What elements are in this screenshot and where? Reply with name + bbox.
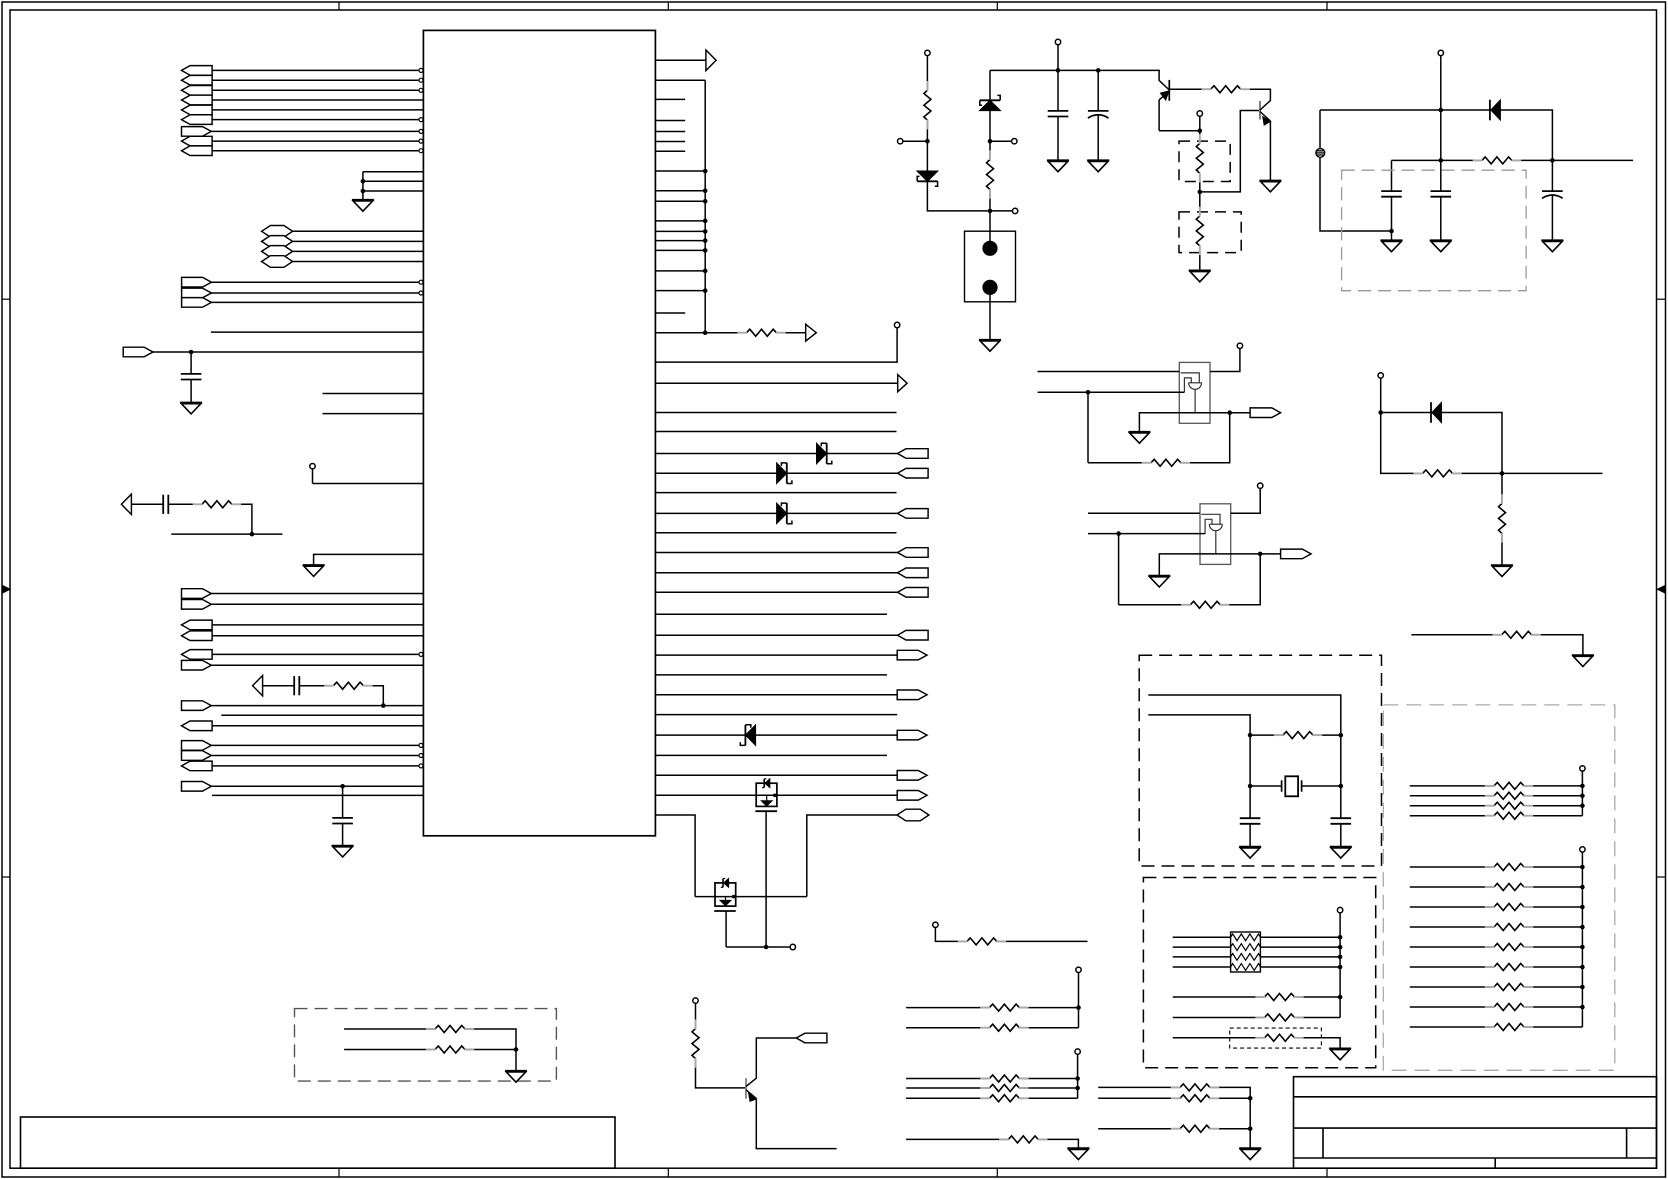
net flag row352: [123, 347, 153, 357]
resistor R41: [989, 1024, 1019, 1031]
pin stub row313: [655, 312, 685, 314]
wire R45 left: [906, 1138, 1008, 1140]
terminal U3 pullup: [1258, 483, 1263, 488]
wire R18 right: [1295, 1038, 1341, 1049]
net flag row473: [898, 468, 929, 478]
wire row745: [211, 744, 419, 746]
junction bus row240: [703, 238, 708, 243]
net flag row726: [182, 721, 213, 731]
wire capacitor C4 stem top: [342, 786, 344, 818]
wire RN1 row2 left: [1173, 946, 1231, 948]
wire capacitor C1 stem bottom: [190, 380, 192, 403]
wire row160 corner drop: [1391, 160, 1393, 191]
net flag hex row2: [262, 236, 293, 248]
wire left group1 row6: [212, 119, 419, 121]
pin stub row141: [655, 141, 685, 143]
connector J1 pin2: [982, 280, 997, 295]
wire R48 left: [1098, 1128, 1180, 1130]
junction R47: [1248, 1096, 1253, 1101]
wire bus row220: [655, 220, 705, 222]
wire row453: [655, 453, 897, 455]
border zone tick top x=1327: [1326, 2, 1328, 10]
wire R47 right: [1210, 1097, 1250, 1099]
chassis symbol: [1319, 147, 1321, 156]
MOSFET Q2 plate bar: [714, 910, 736, 912]
junction P3 node: [1378, 410, 1383, 415]
wire array2 row5 right: [1524, 946, 1582, 948]
arrow left row686: [253, 676, 263, 696]
border zone tick bottom x=339: [338, 1168, 340, 1177]
wire left group1 row3: [212, 89, 419, 91]
border zone tick left y=877: [2, 876, 10, 878]
junction array2 row1: [1580, 865, 1585, 870]
wire bus row190: [655, 190, 705, 192]
ground Q4: [1259, 180, 1281, 182]
net flag row654: [182, 650, 213, 660]
wire array2 row2 right: [1524, 886, 1582, 888]
wire left group1 row7: [211, 130, 419, 132]
net flag Q5 collector: [796, 1033, 827, 1043]
wire row572: [655, 572, 897, 574]
net flag left group1 row4: [182, 95, 213, 105]
wire P4 drop: [1339, 913, 1341, 1018]
terminal P7: [933, 922, 938, 927]
wire bus row240: [655, 240, 705, 242]
transistor Q4 arrow: [1263, 116, 1271, 125]
pin bubble U1 left row8: [419, 139, 423, 143]
junction node3: [988, 209, 993, 214]
junction bus row250: [703, 248, 708, 253]
resistor R46: [1180, 1084, 1210, 1091]
wire plain row y795: [212, 794, 423, 796]
MOSFET Q2 junction: [732, 895, 736, 899]
wire hex row4: [293, 261, 424, 263]
wire plain row y393: [323, 393, 424, 395]
wire C11 stem: [1340, 786, 1342, 818]
wire R50 left: [344, 1049, 435, 1051]
net flag row604: [182, 600, 212, 610]
resistor R7: [1211, 86, 1241, 93]
IC U1 body: [423, 30, 655, 835]
buffer U3 box: [1200, 504, 1231, 565]
resistor R34: [1494, 944, 1524, 951]
wire U3 out: [1260, 553, 1280, 555]
wire capacitor C1 stem top: [190, 352, 192, 374]
resistor R42: [989, 1075, 1019, 1082]
resistor R37: [1494, 1004, 1524, 1011]
buffer U3 internals: [1201, 514, 1220, 524]
resistor R22: [1494, 802, 1524, 809]
wire xtal in1: [1148, 695, 1341, 786]
schottky diode D6 (up): [980, 100, 1001, 110]
terminal row483: [310, 464, 315, 469]
wire bus bottom row333: [655, 332, 746, 334]
pin bubble row654: [419, 652, 423, 656]
junction R16: [1338, 995, 1343, 1000]
resistor R48: [1180, 1125, 1210, 1132]
wire row815 pin segment: [655, 815, 695, 897]
pin stub row492: [655, 492, 896, 494]
net flag out group row3: [182, 298, 212, 308]
resistor R15: [1283, 732, 1313, 739]
wire row362 to terminal: [655, 327, 897, 362]
junction array1 row3: [1580, 803, 1585, 808]
border zone tick bottom x=1327: [1326, 1168, 1328, 1177]
resistor R23: [1494, 812, 1524, 819]
resistor pack RN1 box: [1231, 932, 1261, 972]
resistor R33: [1494, 924, 1524, 931]
wire Q2 drain drop: [725, 911, 727, 947]
wire P1 to R4: [926, 55, 928, 90]
wire out group row1: [211, 281, 419, 283]
junction row352: [189, 350, 194, 355]
wire node1 side: [903, 140, 928, 142]
wire R41 right: [1019, 1027, 1078, 1029]
wire left group1 row2: [212, 79, 419, 81]
wire row534: [171, 533, 282, 535]
wire R40 right: [1019, 1007, 1078, 1009]
junction U3 in2: [1116, 531, 1121, 536]
border zone tick bottom x=668.3: [667, 1168, 669, 1177]
resistor R49: [435, 1026, 465, 1033]
divider upper dashed box: [1179, 141, 1230, 181]
wire drain bottom: [726, 946, 790, 948]
wire array2 row8 left: [1410, 1006, 1494, 1008]
wire left group1 row1: [212, 69, 419, 71]
wire R3 to arrow: [777, 332, 806, 334]
border zone tick right y=299.2: [1657, 298, 1666, 300]
wire C10 stem: [1249, 786, 1251, 818]
wire row593: [211, 593, 423, 595]
wire U2 in1: [1038, 371, 1180, 373]
net flag row665: [182, 660, 212, 670]
wire U2 in1 out segment: [1210, 348, 1240, 371]
wire R13 upper: [1501, 473, 1503, 503]
terminal node4: [1197, 111, 1202, 116]
wire array2 row3 right: [1524, 906, 1582, 908]
pin bubble row745: [419, 743, 423, 747]
wire R47 left: [1098, 1097, 1180, 1099]
pin bubble row766: [419, 764, 423, 768]
divider lower dashed box: [1179, 212, 1241, 253]
wire P7 corner: [935, 927, 967, 941]
junction row473: [1500, 471, 1505, 476]
ground C9: [1541, 239, 1563, 241]
wire row815 flag segment: [807, 815, 897, 897]
ground tied pins: [352, 199, 374, 201]
transistor Q5 bar: [745, 1078, 747, 1099]
wire bus row231: [655, 230, 705, 232]
terminal U2 pullup: [1237, 343, 1242, 348]
junction xtal a: [1248, 784, 1253, 789]
R18 dotted box: [1230, 1028, 1322, 1048]
junction row160 a: [1439, 158, 1444, 163]
wire R41 left: [906, 1027, 989, 1029]
wire row655r: [655, 654, 897, 656]
pin bubble U1 left row1: [419, 68, 423, 72]
wire array1 row1 left: [1410, 785, 1494, 787]
resistor R50: [435, 1046, 465, 1053]
junction array2 row3: [1580, 905, 1585, 910]
ground row634: [1572, 654, 1594, 656]
ground U3: [1148, 575, 1170, 577]
wire RN1 row4 right: [1260, 966, 1340, 968]
ground C10: [1239, 846, 1261, 848]
junction RN1 row1: [1338, 935, 1343, 940]
wire hex row1: [293, 230, 424, 232]
resistor R44: [989, 1095, 1019, 1102]
net flag row706: [182, 701, 212, 711]
capacitor C2 (series): [162, 495, 164, 514]
wire R18 left: [1173, 1037, 1265, 1039]
wire row786: [211, 785, 423, 787]
wire chassis drop: [1320, 157, 1392, 231]
wire RN1 row1 left: [1173, 936, 1231, 938]
wire row634: [1411, 634, 1493, 636]
wire array1 row1 right: [1524, 785, 1582, 787]
wire bus row171: [655, 170, 705, 172]
crystal dashed box: [1139, 655, 1381, 866]
wire R15 right: [1313, 734, 1341, 736]
wire arrow to C2: [131, 503, 163, 505]
resistor R51 (vertical): [692, 1029, 699, 1059]
wire P9 drop: [1077, 1054, 1079, 1098]
filter dashed box (gray): [1342, 170, 1527, 291]
pin bubble out group row1: [419, 280, 423, 284]
title block row line 3: [1294, 1157, 1657, 1159]
wire R49 right: [465, 1029, 516, 1050]
wire xtal in2: [1148, 715, 1250, 786]
arrow right row333: [806, 324, 817, 341]
resistor R32: [1494, 904, 1524, 911]
junction array2 row6: [1580, 965, 1585, 970]
net flag row552: [898, 548, 929, 558]
ground R45: [1067, 1147, 1089, 1149]
wire rail2 left drop: [1319, 110, 1321, 147]
wire array2 row3 left: [1410, 906, 1494, 908]
wire D6 to node2: [989, 111, 991, 160]
arrow left row504: [121, 494, 131, 514]
buffer U2 box: [1179, 362, 1210, 423]
connector J1 box: [965, 231, 1016, 302]
MOSFET Q2 gate arrow: [720, 900, 731, 905]
wire row473 right: [1453, 472, 1603, 474]
terminal node3 side: [1012, 208, 1017, 213]
resistor R35: [1494, 964, 1524, 971]
title block bottom-left box: [21, 1117, 616, 1168]
ground R13: [1491, 564, 1513, 566]
capacitor C6 (polarized): [1088, 110, 1109, 112]
net flag row624: [182, 620, 213, 630]
terminal P1: [925, 50, 930, 55]
pin stub row532: [655, 532, 896, 534]
net flag hex row4: [262, 256, 293, 268]
ground C1: [180, 402, 202, 404]
pin bubble U1 left row9: [419, 149, 423, 153]
wire Q1 drain drop: [765, 811, 767, 947]
wire row766: [212, 765, 419, 767]
wire row412 right corner: [1442, 413, 1503, 474]
wire left group1 row9: [212, 150, 419, 152]
terminal P5: [1580, 766, 1585, 771]
border zone tick right y=877: [1657, 876, 1666, 878]
junction node4: [1198, 128, 1203, 133]
junction array2 row5: [1580, 945, 1585, 950]
net flag row453: [898, 449, 929, 459]
wire row624: [212, 624, 423, 626]
resistor R5 (vertical): [987, 160, 994, 190]
resistor R30: [1494, 864, 1524, 871]
wire U3 feedback down: [1118, 534, 1120, 605]
pin bubble out group row2: [419, 291, 423, 295]
junction RN1 row3: [1338, 955, 1343, 960]
wire R8 to ground: [1199, 246, 1201, 271]
resistor R2: [333, 682, 363, 689]
wire capacitor C4 stem bottom: [342, 824, 344, 846]
junction U2 in2: [1086, 390, 1091, 395]
wire C6 stem: [1097, 70, 1099, 111]
wire D7 to corner: [1500, 110, 1552, 160]
junction bus row290: [703, 288, 708, 293]
terminal drain bottom: [790, 944, 795, 949]
capacitor C8: [1431, 190, 1452, 192]
MOSFET Q2 schottky: [724, 879, 729, 888]
junction array2 row2: [1580, 885, 1585, 890]
net flag left group1 row2: [182, 75, 213, 85]
wire P8 drop: [1078, 972, 1080, 1027]
MOSFET Q2 body box: [715, 883, 736, 906]
wire RN1 row3 right: [1260, 956, 1340, 958]
wire C5 lower stem: [1057, 117, 1059, 161]
pin bubble U1 left row6: [419, 118, 423, 122]
wire R1 corner: [232, 504, 252, 534]
wire row706: [211, 705, 423, 707]
junction bus row270: [703, 269, 708, 274]
arrow right row60: [706, 50, 716, 71]
pin bubble U1 left row2: [419, 78, 423, 82]
wire R6 to node5: [1199, 173, 1201, 216]
wire array1 row3 left: [1410, 805, 1494, 807]
capacitor C3 (series): [293, 676, 295, 695]
wire D5 to corner: [927, 181, 990, 211]
wire Q4 emitter drop: [1269, 121, 1271, 181]
junction bus row201: [703, 199, 708, 204]
wire U3 gnd stub: [1159, 554, 1260, 576]
junction bus bottom: [703, 330, 708, 335]
ground C4: [332, 845, 354, 847]
MOSFET Q1 body box: [756, 783, 777, 806]
title block bottom-right box: [1294, 1077, 1657, 1169]
wire arrow to C3: [263, 685, 295, 687]
wire U2 gnd stub: [1139, 413, 1229, 432]
junction tied row b: [361, 179, 366, 184]
connector J1 pin1: [982, 241, 997, 256]
wire out group row3: [211, 301, 423, 303]
MOSFET Q1 plate bar: [755, 810, 777, 812]
title block cell divider b: [1626, 1128, 1628, 1158]
junction R48: [1248, 1126, 1253, 1131]
terminal node2 side: [1012, 139, 1017, 144]
net flag hex row3: [262, 246, 293, 258]
wire row896 through Q2: [715, 896, 807, 898]
wire R2 corner: [363, 686, 383, 706]
wire R19 right: [997, 940, 1088, 942]
border zone tick top x=339: [338, 2, 340, 10]
ground bottom-left: [505, 1070, 527, 1072]
junction xtal r a: [1248, 733, 1253, 738]
border center arrow right: [1657, 586, 1665, 593]
resistor R31: [1494, 884, 1524, 891]
junction node2: [988, 139, 993, 144]
transistor Q3 arrow lead: [1159, 91, 1169, 100]
ground C11: [1330, 846, 1352, 848]
net flag row513: [898, 509, 929, 519]
wire R17 right: [1295, 1017, 1341, 1019]
transistor Q5 emitter lead: [746, 1090, 756, 1099]
net flag out group row1: [182, 277, 212, 287]
transistor Q4 emitter lead: [1260, 112, 1270, 122]
wire R4 to node: [926, 120, 928, 171]
junction array2 row4: [1580, 925, 1585, 930]
resistor R4 (vertical): [924, 90, 931, 120]
wire R43 left: [906, 1087, 989, 1089]
wire Q5 emitter drop: [756, 1099, 836, 1149]
ground trio: [1239, 1147, 1261, 1149]
terminal P10: [693, 998, 698, 1003]
pin bubble U1 left row7: [419, 129, 423, 133]
junction xtal r b: [1339, 733, 1344, 738]
junction array2 row8: [1580, 1005, 1585, 1010]
title block row line 2: [1294, 1127, 1657, 1129]
ground U2: [1128, 431, 1150, 433]
wire array2 row5 left: [1410, 946, 1494, 948]
net flag left group1 row7 (output): [182, 127, 212, 137]
capacitor C9 (polarized): [1542, 190, 1563, 192]
wire array2 row1 right: [1524, 866, 1582, 868]
wire hex row3: [293, 250, 424, 252]
wire array1 row3 right: [1524, 805, 1582, 807]
wire R46 right: [1210, 1087, 1250, 1148]
border zone tick bottom x=997.3: [996, 1168, 998, 1177]
resistor R14: [1502, 631, 1532, 638]
junction rail2: [1439, 108, 1444, 113]
net flag row786: [182, 782, 212, 792]
pin stub row151: [655, 150, 685, 152]
junction rail cap C5: [1056, 68, 1061, 73]
wire R42 right: [1019, 1078, 1077, 1080]
junction U2 out: [1227, 410, 1232, 415]
wire row604: [211, 603, 423, 605]
resistor lead shading (gray overdraw): [193, 503, 203, 505]
wire row654: [212, 653, 419, 655]
ground C5: [1047, 159, 1069, 161]
wire node4 drop: [1199, 116, 1201, 143]
wire R50 right: [465, 1049, 516, 1051]
pin stub row412: [655, 412, 896, 414]
wire bus row201: [655, 200, 705, 202]
terminal P2: [1438, 50, 1443, 55]
junction row160 b: [1550, 158, 1555, 163]
wire R43 right: [1019, 1087, 1077, 1089]
junction U3 out: [1258, 552, 1263, 557]
junction node1: [925, 139, 930, 144]
wire R16 left: [1173, 996, 1265, 998]
terminal P9: [1075, 1049, 1080, 1054]
transistor Q4 bar: [1259, 101, 1261, 120]
crystal Y1: [1281, 780, 1283, 791]
junction node5: [1198, 190, 1203, 195]
wire R51 to base: [696, 1059, 747, 1088]
